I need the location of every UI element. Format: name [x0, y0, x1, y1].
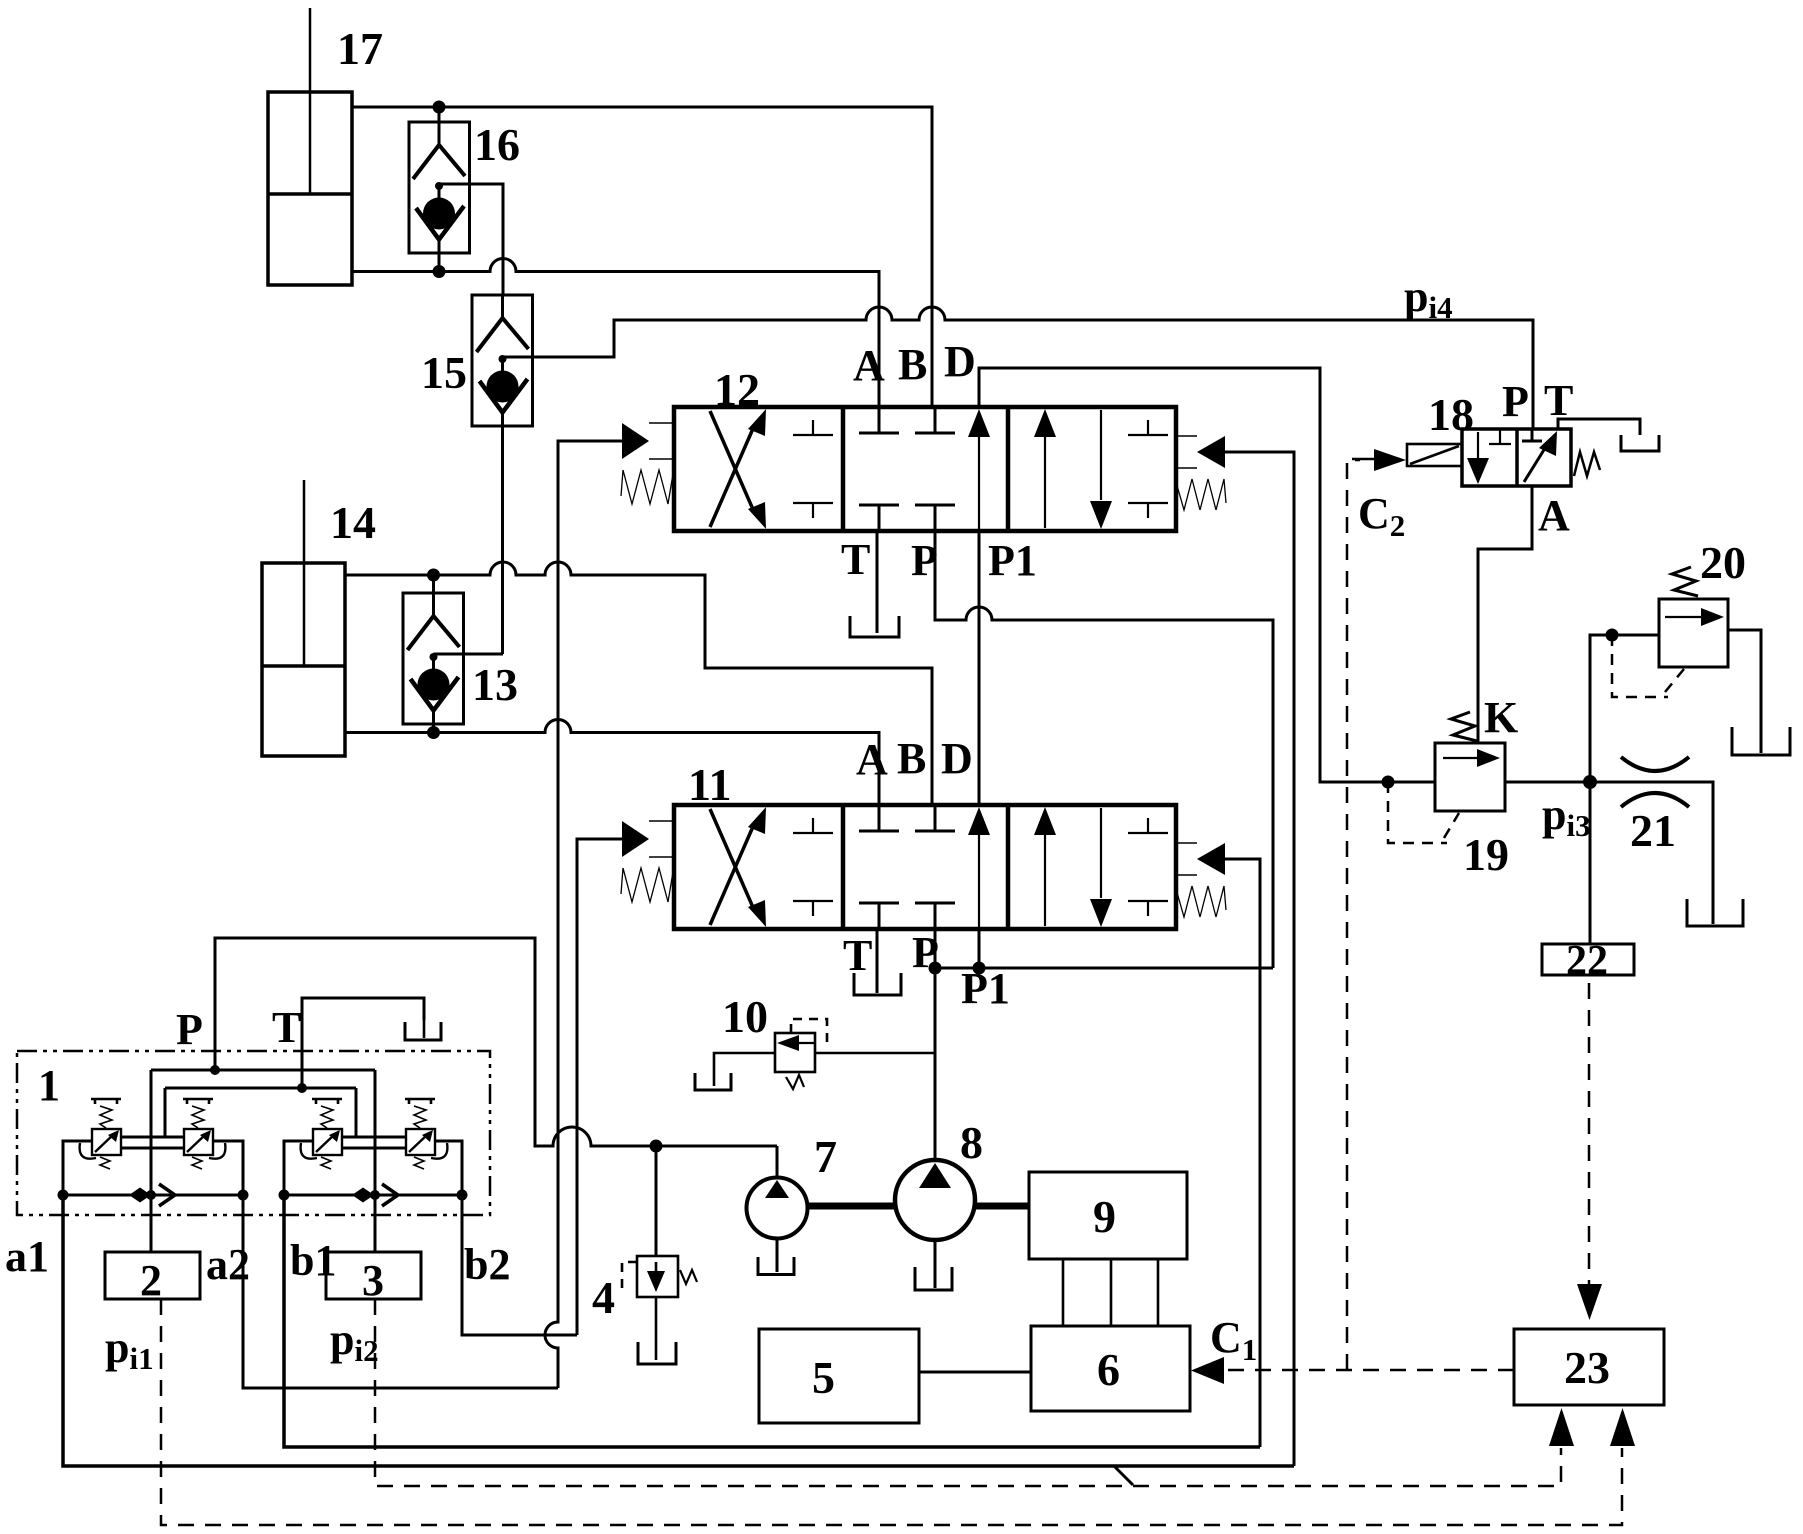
svg-text:B: B [897, 734, 926, 783]
wire valve12 P down right to riser (hop at 979) [935, 531, 1273, 968]
svg-text:9: 9 [1093, 1191, 1116, 1242]
wire valve19 right port to pi3 node [1505, 781, 1590, 784]
node cyl14 top [427, 569, 440, 582]
wire cyl14 top port to valve11 B (hops at 503,558) [345, 562, 932, 805]
dashed wire C1 from box23 to box6 [1226, 1369, 1514, 1372]
valve 11 right pilot [1176, 843, 1225, 875]
pump 7 [747, 1178, 808, 1239]
solenoid valve 18 body [1462, 429, 1571, 486]
right shuttle symbol [352, 1184, 398, 1206]
pilot unit P rail [151, 1069, 375, 1072]
svg-text:14: 14 [330, 497, 376, 548]
svg-text:P1: P1 [961, 964, 1010, 1013]
valve 11 left spring [621, 866, 674, 902]
svg-text:23: 23 [1564, 1342, 1610, 1393]
valve 11 centre cell blocked ports [859, 805, 955, 929]
dashed wire box22 to box23 [1588, 983, 1591, 1286]
box 22 [1542, 944, 1634, 975]
wire check13 pilot branch to check15 line [434, 653, 504, 656]
wire pump7 up to supply [776, 1146, 779, 1177]
node valve11 P [929, 962, 942, 975]
pilot unit T riser and tank [302, 998, 441, 1088]
wire P supply rail to riser [935, 967, 1273, 970]
svg-text:11: 11 [688, 759, 731, 810]
valve 10 [775, 1019, 827, 1089]
valve 12 left pilot [622, 423, 674, 459]
valve 12 centre cell up arrow P1-D [968, 409, 990, 531]
svg-text:T: T [843, 931, 872, 980]
svg-text:K: K [1484, 693, 1518, 742]
valve 20 spring top [1672, 567, 1698, 596]
wire cyl14 bottom port to valve11 A (hop at 558) [345, 720, 879, 805]
pilot unit P riser [214, 938, 217, 1070]
svg-text:13: 13 [472, 659, 518, 710]
node P1 tap [973, 962, 986, 975]
wires box9 to box6 [1063, 1259, 1158, 1326]
svg-text:T: T [1544, 376, 1573, 425]
svg-text:8: 8 [960, 1117, 983, 1168]
valve 19 spring K [1451, 712, 1477, 741]
valve 18 T port to tank [1558, 419, 1659, 451]
left shuttle symbol [129, 1184, 175, 1206]
svg-text:1: 1 [38, 1061, 60, 1110]
svg-text:B: B [898, 340, 927, 389]
valve 11 centre cell up arrow P1-D [968, 807, 990, 929]
svg-text:22: 22 [1566, 938, 1608, 984]
svg-text:a1: a1 [5, 1232, 49, 1281]
svg-text:10: 10 [722, 991, 768, 1042]
valve 11 right spring [1176, 886, 1226, 917]
node cyl17 top [433, 101, 446, 114]
directional valve 11 body [674, 805, 1176, 929]
directional valve 12 body [674, 407, 1176, 531]
box 23 [1514, 1329, 1664, 1405]
wire cyl17 bottom port to valve12 A (hop at 503) [352, 259, 879, 407]
dashed wire C2 riser [1347, 460, 1360, 1370]
svg-text:15: 15 [421, 347, 467, 398]
wire pi3 up to valve 20 left port [1590, 635, 1659, 782]
valve 18 input arrow C2 [1352, 449, 1406, 471]
pilot unit tap to box 3 [374, 1070, 377, 1252]
dashed wire pi2 to box23 [375, 1299, 1561, 1486]
pump 7 tank [758, 1239, 794, 1275]
stub diagonal at pi2 line [1114, 1466, 1133, 1485]
svg-text:20: 20 [1700, 537, 1746, 588]
valve 11 left cell blocked ports [793, 818, 833, 916]
pilot unit T rail [165, 1087, 356, 1090]
svg-text:3: 3 [362, 1256, 384, 1305]
shaft pump7-pump8 [808, 1203, 896, 1210]
wire cyl17 top port to valve12 B [352, 107, 932, 407]
wire a1 riser to valve12 right pilot [63, 1195, 1294, 1466]
svg-text:A: A [853, 341, 885, 390]
svg-text:18: 18 [1428, 389, 1474, 440]
relief valve 4 [622, 1256, 697, 1364]
pilot unit tap to box 2 [150, 1070, 153, 1252]
reducing valve b [183, 1099, 225, 1169]
svg-text:4: 4 [592, 1272, 615, 1323]
pilot unit T rail drops [165, 1088, 356, 1137]
right module frame [284, 1137, 462, 1195]
svg-text:5: 5 [812, 1352, 835, 1403]
node valve20 left [1606, 629, 1619, 642]
valve 18 right cell diagonal arrow [1522, 429, 1557, 482]
valve 19 body [1435, 743, 1505, 811]
valve 12 left cell crossed arrows [710, 409, 766, 529]
box 5 [759, 1329, 919, 1423]
svg-text:D: D [944, 337, 976, 386]
svg-text:P: P [1502, 377, 1529, 426]
left module frame [63, 1137, 243, 1195]
wire valve11 left pilot to riser b2 [577, 839, 622, 1335]
node pi3 [1583, 775, 1597, 789]
dashed wire pi1 to box23 [161, 1299, 1622, 1525]
arrow pi1 into box23 bottom [1610, 1408, 1635, 1446]
valve 12 right cell arrows [1034, 409, 1168, 529]
valve 18 left cell blocked T and down arrow [1467, 429, 1511, 484]
svg-text:b2: b2 [464, 1240, 510, 1289]
svg-text:16: 16 [474, 119, 520, 170]
valve 12 centre cell blocked ports [859, 407, 955, 531]
svg-text:19: 19 [1463, 829, 1509, 880]
wire valve12 left pilot to riser a2 [545, 441, 622, 1388]
node cyl17 bottom [433, 265, 446, 278]
svg-text:A: A [1538, 491, 1570, 540]
wire valve18 A port down to valve 19 [1478, 486, 1532, 743]
pilot unit 1 boundary dash-dot box [17, 1051, 490, 1215]
box 3 [326, 1252, 421, 1299]
wire valve12 right pilot down to a1 rail [1225, 452, 1294, 1466]
wire supply down to relief 4 [655, 1146, 658, 1256]
pump 8 tank [915, 1240, 952, 1290]
node cyl14 bottom [427, 726, 440, 739]
shaft pump8-box9 [975, 1203, 1029, 1210]
wire check15 down to check13 branch [501, 426, 504, 654]
svg-text:P1: P1 [988, 536, 1037, 585]
svg-text:6: 6 [1097, 1344, 1120, 1395]
svg-text:12: 12 [714, 364, 760, 415]
check valve 16 [409, 107, 470, 272]
wire valve12 D up and right down to valve19 port [979, 368, 1435, 782]
svg-text:7: 7 [814, 1131, 837, 1182]
valve 20 pilot dashed [1612, 635, 1684, 697]
wire pi3 right to tank [1590, 782, 1743, 926]
wire b1 riser to valve11 right pilot [284, 1195, 1260, 1447]
wire valve12 P1 down to valve11 D [978, 531, 981, 805]
wire pi3 down to box 22 [1589, 782, 1592, 944]
reducing valve a [80, 1099, 121, 1169]
arrow pi2 into box23 bottom [1549, 1408, 1574, 1446]
check valve 13 [403, 575, 464, 733]
svg-text:T: T [272, 1003, 301, 1052]
nodes right module rail [279, 1190, 290, 1201]
valve 12 T port line and tank [850, 531, 899, 637]
valve 18 solenoid box [1407, 444, 1462, 466]
box 9 [1029, 1172, 1187, 1259]
wire valve19 left port [1320, 781, 1435, 784]
box 2 [105, 1252, 200, 1299]
node valve19 left [1382, 776, 1395, 789]
valve 18 spring right [1574, 452, 1600, 476]
wire pump supply to pilot unit P (wide hop over 558,577) [215, 938, 777, 1146]
node P rail [210, 1065, 220, 1075]
svg-text:D: D [941, 734, 973, 783]
arrow into box23 top [1577, 1284, 1602, 1320]
wire box5 to box6 [919, 1371, 1031, 1374]
valve 11 left cell crossed arrows [710, 807, 766, 927]
valve 19 pilot dashed [1388, 782, 1459, 843]
box 6 [1031, 1326, 1190, 1411]
wire b2 riser [462, 1195, 577, 1335]
wire a2 riser [243, 1195, 558, 1388]
valve 20 body [1659, 599, 1728, 667]
reducing valve c [301, 1099, 342, 1169]
wire valve11 P1 down to supply rail [978, 929, 981, 968]
node supply to relief4 [650, 1140, 663, 1153]
nodes left module rail [58, 1190, 69, 1201]
svg-text:21: 21 [1630, 805, 1676, 856]
svg-text:A: A [856, 735, 888, 784]
valve 12 right pilot [1176, 436, 1225, 468]
reducing valve d [405, 1099, 447, 1169]
valve 10 right port to P line [815, 1052, 935, 1055]
pump 8 [895, 1160, 975, 1240]
svg-text:17: 17 [337, 23, 383, 74]
valve 12 left spring [621, 468, 674, 504]
cylinder 14 [262, 480, 345, 756]
valve 12 left cell blocked ports [793, 420, 833, 518]
svg-text:P: P [176, 1005, 203, 1054]
orifice 21 [1621, 757, 1689, 807]
valve 11 T port line and tank [854, 929, 901, 995]
valve 20 right port to tank [1728, 630, 1790, 755]
wire pi4 from check15 to valve18 P (hops at 879,932) [503, 307, 1534, 429]
valve 12 right spring [1176, 479, 1226, 510]
wire check16 pilot branch down to check15 [439, 184, 503, 295]
node T rail [297, 1083, 307, 1093]
cylinder 17 [268, 8, 352, 285]
valve 10 left port to tank [695, 1053, 775, 1090]
svg-text:T: T [841, 535, 870, 584]
valve 11 right cell arrows [1034, 807, 1168, 927]
valve 11 left pilot [622, 821, 674, 857]
svg-text:b1: b1 [290, 1236, 336, 1285]
wire valve11 right pilot down to b1 rail [1225, 859, 1260, 1447]
check valve 15 [472, 295, 533, 426]
wire valve11 P down to pump 8 with supply node [934, 929, 937, 1160]
arrow C1 into box6 [1191, 1357, 1224, 1384]
svg-text:2: 2 [140, 1256, 162, 1305]
